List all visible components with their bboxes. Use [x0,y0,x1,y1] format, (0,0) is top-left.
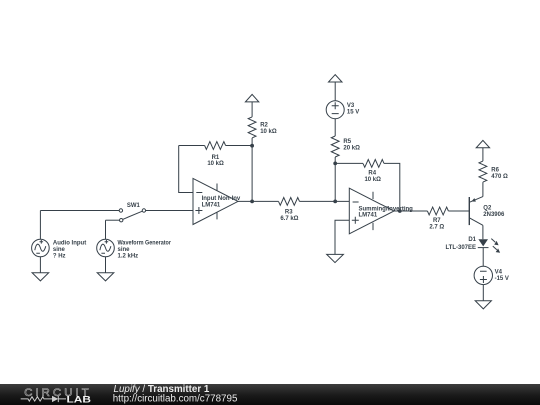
resistor R1 [205,142,226,150]
wire R7 to Q2 base [448,210,469,212]
svg-text:Input Non-Inv: Input Non-Inv [202,196,241,202]
voltage source V4 -15 V [474,266,492,284]
node D summing junction [333,200,337,204]
label V1 Audio Input sine ? Hz [53,240,86,259]
voltage source V3 15 V [326,101,344,119]
svg-text:LM741: LM741 [359,213,378,219]
logo wire resistor diode LAB [21,396,66,402]
power flag above R6 [476,140,489,161]
svg-text:Q2: Q2 [483,205,492,211]
label V4 -15 V [495,270,509,282]
wire U1 output to R3 [238,200,279,202]
svg-text:470 Ω: 470 Ω [491,174,508,180]
svg-text:15 V: 15 V [347,109,359,115]
svg-text:2.7 Ω: 2.7 Ω [429,225,444,231]
wire V4 to ground [482,285,484,301]
svg-text:1.2 kHz: 1.2 kHz [118,253,139,259]
wire U2 output [394,210,427,212]
resistor R3 [279,197,300,205]
wire node C to R4 [335,162,363,164]
svg-text:? Hz: ? Hz [53,253,66,259]
label U1 Input Non-Inv LM741 [202,196,241,208]
wire V2 bottom to ground [105,257,107,273]
wire V2 top [105,220,107,239]
voltage source V2 Waveform Generator sine [97,239,115,257]
svg-text:-15 V: -15 V [495,276,509,282]
wire node to SW1 left terminal [40,210,119,212]
resistor R5 [331,136,339,157]
wire R1 to node A [226,145,253,147]
resistor R4 [363,159,384,167]
wire V1 top to node at x40 [39,211,41,240]
svg-text:V3: V3 [347,103,355,109]
svg-text:10 kΩ: 10 kΩ [260,129,277,135]
wire U2 non-inverting input to ground drop [335,220,349,254]
label D1 LTL-307EE [445,237,476,251]
voltage source V1 Audio Input sine [32,239,50,257]
svg-text:LAB: LAB [67,394,92,404]
svg-text:V4: V4 [495,270,503,276]
node A junction R1 R2 [250,144,254,148]
ground under V1 [32,273,49,281]
resistor R2 [248,117,256,138]
wire R6 to Q2 emitter [482,182,484,197]
svg-text:6.7 kΩ: 6.7 kΩ [280,216,298,222]
wire R2 down to output node [251,138,253,202]
svg-text:LTL-307EE: LTL-307EE [445,245,476,251]
svg-text:R2: R2 [260,123,268,129]
wire V2 to SW1 bottom terminal [106,219,120,221]
svg-text:10 kΩ: 10 kΩ [364,177,381,183]
wire V3 to R5 [334,119,336,136]
ground under V2 [97,273,114,281]
svg-text:R3: R3 [285,210,293,216]
wire V1 bottom to ground [39,257,41,273]
svg-text:SW1: SW1 [127,203,141,209]
LED D1 LTL-307EE [478,239,500,253]
svg-text:20 kΩ: 20 kΩ [343,146,360,152]
resistor R7 [427,207,448,215]
label V2 Waveform Generator sine 1.2 kHz [118,240,172,259]
svg-text:R4: R4 [368,170,376,176]
label R6 470 Ohm [491,167,508,179]
power flag above R2 [245,94,258,117]
ground under V4 [475,301,491,309]
svg-text:R7: R7 [433,218,441,224]
wire node C down to summing node [334,163,336,201]
transistor Q2 2N3906 [469,197,483,240]
power flag above V3 [329,75,343,101]
wire U1 inverting input feedback [179,146,193,193]
svg-text:2N3906: 2N3906 [483,212,505,218]
svg-text:sine: sine [118,247,131,253]
wire R5 to node C [334,157,336,163]
label V3 15 V [347,103,359,115]
label R1 10 kOhm [207,155,224,167]
wire R3 to summing node [300,200,350,202]
ground at U2 non-inverting input [327,254,344,262]
node B junction U1 output [250,200,254,204]
svg-text:10 kΩ: 10 kΩ [207,161,224,167]
footer bar [0,384,540,405]
label R7 2.7 Ohm [429,218,444,231]
label U2 Summing/Inverting LM741 [359,206,414,218]
svg-text:Audio Input: Audio Input [53,240,86,246]
svg-text:LM741: LM741 [202,202,221,208]
node E junction R4 output [398,209,402,213]
wire R4 to U2 output node [384,163,400,211]
wire D1 to V4 [482,248,484,267]
op-amp U2 Summing/Inverting LM741 [349,188,394,234]
label R3 6.7 kOhm [280,210,298,223]
svg-text:D1: D1 [468,237,476,243]
label R2 10 kOhm [260,123,277,135]
op-amp U1 Input Non-Inv LM741 [193,178,238,224]
label R4 10 kOhm [364,170,381,183]
svg-text:R5: R5 [343,139,351,145]
resistor R6 [479,161,487,182]
svg-text:Waveform Generator: Waveform Generator [118,240,172,246]
node C junction R5 R4 [333,162,337,166]
wire SW1 to op-amp U1 non-inverting input [146,210,193,212]
svg-text:sine: sine [53,247,66,253]
svg-text:R6: R6 [491,167,499,173]
svg-text:http://circuitlab.com/c778795: http://circuitlab.com/c778795 [113,393,238,404]
wire feedback top to R1 [179,145,205,147]
label Q2 2N3906 [483,205,505,218]
label R5 20 kOhm [343,139,360,151]
switch SW1 [119,209,145,222]
